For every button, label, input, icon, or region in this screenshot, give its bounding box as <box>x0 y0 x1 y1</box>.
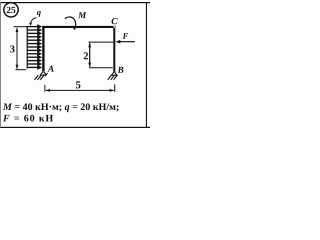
label M <box>78 12 86 18</box>
support A pin triangle <box>40 70 46 75</box>
distributed load q: arrows <box>27 25 41 69</box>
beam top (frame member to C) <box>42 26 115 28</box>
label C <box>112 18 118 24</box>
label 3 <box>10 45 15 52</box>
dimension 2: extension bottom <box>89 67 113 69</box>
label q <box>37 11 41 17</box>
problem number badge 25 <box>4 3 18 17</box>
border top <box>0 2 150 3</box>
dimension 3: extension bottom <box>16 69 27 71</box>
border left (faint) <box>0 2 2 128</box>
support B hatching <box>108 75 117 79</box>
caption line 1: M = 40 kN*m; q = 20 kN/m; <box>3 103 119 112</box>
caption line 2: F = 60 kN <box>3 115 53 122</box>
label 2 <box>84 52 88 59</box>
q leader arrow <box>31 18 37 24</box>
dimension 5: left tick <box>44 85 46 92</box>
border bottom <box>0 127 150 128</box>
dimension 5: right tick <box>114 84 116 92</box>
hinge circle at C <box>113 26 115 28</box>
column right CB <box>113 26 115 72</box>
distributed load q: left rail <box>27 26 28 69</box>
dimension 2: line with arrows <box>89 43 91 67</box>
force F arrow <box>119 41 135 43</box>
dimension 2: extension top <box>89 41 114 43</box>
border right <box>146 2 147 128</box>
support B pin triangle <box>111 71 117 75</box>
column left AB <box>42 26 44 71</box>
label F <box>123 33 129 39</box>
label A <box>48 66 54 72</box>
support A hatching <box>35 73 48 80</box>
dimension 3: line with arrows <box>16 28 18 69</box>
label 5 <box>76 81 80 88</box>
dimension 5: line with arrows <box>46 89 114 91</box>
moment M arc <box>65 17 76 28</box>
label B <box>118 67 124 73</box>
dimension 3: extension top <box>14 26 30 28</box>
